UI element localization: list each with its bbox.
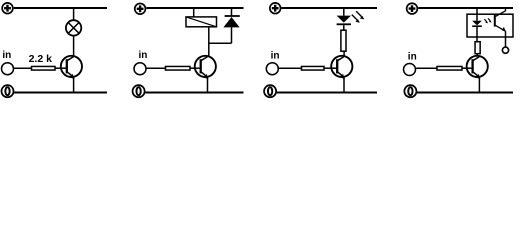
svg-text:in: in xyxy=(2,50,11,61)
wire input to resistor (circuit 3) xyxy=(279,67,302,69)
transistor T2 xyxy=(195,56,216,79)
wire top rail (circuit 2) xyxy=(146,7,243,9)
input terminal in (circuit 2) xyxy=(134,50,147,74)
optocoupler housing U1 xyxy=(467,14,513,37)
LED D2 xyxy=(337,11,365,29)
wire relay feed (circuit 2) xyxy=(193,8,195,17)
resistor R4 (LED series, circuit 3) xyxy=(341,30,346,51)
wire lamp feed (circuit 1) xyxy=(73,8,75,20)
wire resistor to base (circuit 3) xyxy=(324,67,337,69)
wire bottom rail (circuit 2) xyxy=(145,92,243,94)
svg-text:in: in xyxy=(271,51,280,62)
wire resistor to collector (circuit 3) xyxy=(343,52,345,57)
wire input to resistor (circuit 4) xyxy=(416,67,437,69)
resistor R5 xyxy=(437,66,462,70)
ground terminal 0 (circuit 1) xyxy=(1,85,13,97)
wire resistor to base (circuit 1) xyxy=(55,67,67,69)
opto phototransistor xyxy=(495,8,506,32)
supply terminal + (circuit 3) xyxy=(270,3,281,14)
ground terminal 0 (circuit 3) xyxy=(264,85,276,97)
wire bottom rail (circuit 4) xyxy=(417,92,513,94)
wire emitter to ground rail (circuit 3) xyxy=(343,78,345,93)
input terminal in (circuit 4) xyxy=(404,51,417,75)
svg-text:in: in xyxy=(408,51,417,62)
transistor T1 xyxy=(61,56,82,79)
resistor R2 xyxy=(166,66,191,70)
ground terminal 0 (circuit 4) xyxy=(404,85,416,97)
transistor T4 xyxy=(467,56,488,79)
wire LED feed (circuit 3) xyxy=(343,8,345,16)
supply terminal + (circuit 1) xyxy=(2,3,13,14)
wire input to resistor (circuit 1) xyxy=(14,67,31,69)
wire resistor to base (circuit 4) xyxy=(462,67,473,69)
resistor R1 2.2 k xyxy=(29,53,55,70)
wire opto emitter output (circuit 4) xyxy=(505,31,507,47)
wire collector node to diode (circuit 2) xyxy=(209,42,232,44)
resistor R3 xyxy=(302,66,325,70)
output terminal (circuit 4) xyxy=(502,47,508,53)
wire resistor to base (circuit 2) xyxy=(190,67,201,69)
wire bottom rail (circuit 1) xyxy=(14,92,107,94)
opto LED xyxy=(472,18,491,41)
wire top rail (circuit 4) xyxy=(418,7,513,9)
wire emitter to ground rail (circuit 1) xyxy=(73,78,75,93)
diode D1 xyxy=(223,8,239,43)
ground terminal 0 (circuit 2) xyxy=(133,85,145,97)
resistor R6 (opto LED series, circuit 4) xyxy=(475,42,480,54)
transistor T3 xyxy=(331,56,352,79)
svg-text:2.2 k: 2.2 k xyxy=(29,53,53,65)
wire lamp to collector (circuit 1) xyxy=(73,36,75,57)
wire opto LED feed (circuit 4) xyxy=(476,8,478,21)
wire input to resistor (circuit 2) xyxy=(147,67,166,69)
input terminal in (circuit 3) xyxy=(266,51,279,75)
wire bottom rail (circuit 3) xyxy=(277,92,377,94)
wire top rail (circuit 1) xyxy=(14,7,107,9)
input terminal in (circuit 1) xyxy=(2,50,14,74)
wire emitter to ground rail (circuit 4) xyxy=(478,78,480,93)
wire relay to collector node (circuit 2) xyxy=(208,27,210,56)
lamp L1 xyxy=(66,20,81,35)
supply terminal + (circuit 4) xyxy=(407,3,418,14)
wire emitter to ground rail (circuit 2) xyxy=(207,78,209,93)
relay coil K1 xyxy=(186,17,217,27)
svg-text:in: in xyxy=(139,50,148,61)
wire top rail (circuit 3) xyxy=(281,7,377,9)
wire resistor to collector (circuit 4) xyxy=(476,54,478,56)
supply terminal + (circuit 2) xyxy=(135,3,146,14)
